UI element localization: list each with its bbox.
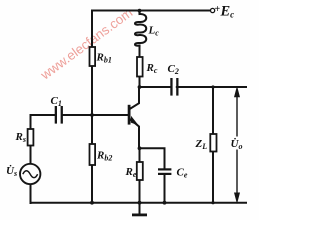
svg-text:ZL: ZL bbox=[195, 138, 208, 151]
svg-text:Rs: Rs bbox=[15, 131, 26, 144]
svg-text:Ec: Ec bbox=[220, 4, 235, 20]
svg-text:Ce: Ce bbox=[177, 167, 188, 180]
svg-text:Re: Re bbox=[125, 166, 137, 179]
svg-text:Rb1: Rb1 bbox=[96, 52, 112, 65]
svg-text:U̇o: U̇o bbox=[231, 137, 243, 151]
svg-text:U̇s: U̇s bbox=[6, 164, 17, 178]
svg-text:Rb2: Rb2 bbox=[96, 150, 112, 163]
svg-text:Lc: Lc bbox=[148, 25, 160, 38]
svg-text:C2: C2 bbox=[168, 63, 179, 76]
svg-text:C1: C1 bbox=[51, 95, 62, 108]
svg-text:Rc: Rc bbox=[146, 62, 158, 75]
svg-text:www.elecfans.com: www.elecfans.com bbox=[37, 5, 135, 83]
